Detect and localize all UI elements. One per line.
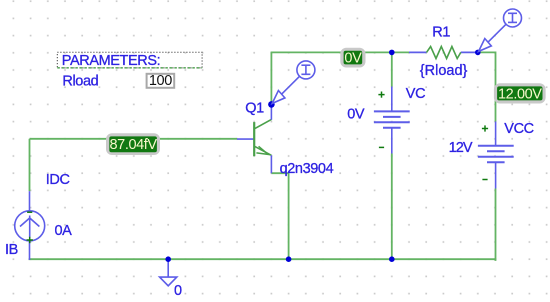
- R1 right pin: [461, 51, 478, 53]
- Q1 base pin: [237, 138, 254, 140]
- VCC plus sign: [482, 125, 488, 131]
- svg-text:100: 100: [149, 73, 172, 89]
- wire: bottom ground rail: [29, 258, 497, 260]
- Q1 collector diagonal: [255, 119, 272, 128]
- wire: VC bottom to ground rail: [391, 154, 393, 260]
- junction dot: VC bottom at ground rail: [389, 256, 395, 262]
- transistor Q1 (q2n3904): [237, 104, 271, 173]
- wire: R1 right pin to right vertical corner: [478, 52, 496, 121]
- wire: base wire from IB column to Q1 base: [30, 138, 238, 140]
- VC plus sign: [378, 92, 384, 98]
- wire: VC top drop from top rail node: [391, 52, 393, 86]
- svg-text:87.04fV: 87.04fV: [110, 137, 158, 153]
- Q1 emitter pin: [270, 155, 272, 173]
- svg-text:0V: 0V: [344, 50, 362, 66]
- current probe on R1 right node: [479, 9, 522, 51]
- junction dot: Q1 collector node: [268, 101, 275, 108]
- IB source minus sign: [27, 211, 32, 213]
- ground symbol 0: [160, 259, 177, 286]
- svg-text:{Rload}: {Rload}: [420, 63, 468, 79]
- svg-text:0: 0: [174, 283, 182, 299]
- IB source plus sign: [27, 237, 33, 243]
- svg-text:12V: 12V: [449, 140, 473, 156]
- svg-text:Q1: Q1: [245, 100, 264, 116]
- wire: VCC bottom to ground rail corner: [495, 189, 496, 261]
- svg-text:IDC: IDC: [46, 172, 70, 188]
- svg-text:Rload: Rload: [62, 74, 98, 90]
- svg-text:q2n3904: q2n3904: [280, 161, 334, 177]
- current source IB (IDC): [15, 191, 45, 260]
- svg-text:IB: IB: [5, 242, 18, 258]
- bias label box 0V (collector node): [340, 48, 365, 68]
- Q1 collector pin: [270, 104, 272, 119]
- svg-text:PARAMETERS:: PARAMETERS:: [62, 53, 160, 69]
- R1 zigzag body: [427, 47, 461, 59]
- voltage source VC (0V battery): [374, 87, 410, 154]
- R1 left pin: [409, 51, 427, 53]
- Q1 emitter diagonal: [255, 146, 272, 155]
- Q1 body bar: [253, 122, 255, 156]
- junction dot: top rail VC node: [389, 50, 395, 56]
- current probe on Q1 collector: [272, 61, 315, 104]
- parameter value box 100: [147, 73, 175, 89]
- svg-text:R1: R1: [432, 24, 450, 40]
- bias label box 87.04fV: [106, 133, 160, 155]
- wire: top rail from collector riser to R1 left pin: [271, 51, 409, 53]
- wire: collector riser from Q1 collector node up to top rail: [270, 52, 272, 104]
- svg-text:12.00V: 12.00V: [498, 86, 542, 102]
- VC minus sign: [379, 146, 384, 148]
- junction dot: emitter at ground rail: [286, 256, 292, 262]
- wire: emitter route from Q1 emitter pin to ground rail: [271, 173, 288, 259]
- resistor R1: [409, 51, 478, 53]
- Q1 emitter arrowhead: [256, 146, 268, 154]
- junction dot: R1 right node: [475, 50, 481, 56]
- PARAMETERS: box: [57, 52, 202, 69]
- svg-text:VC: VC: [406, 86, 425, 102]
- svg-text:0V: 0V: [347, 107, 365, 123]
- svg-text:0A: 0A: [55, 223, 73, 239]
- junction dot: ground node: [165, 256, 171, 262]
- voltage source VCC (12V battery): [478, 122, 514, 189]
- bias label box 12.00V (VCC node): [494, 83, 546, 103]
- wire: left vertical from base wire down to IB source: [29, 139, 31, 191]
- svg-text:VCC: VCC: [504, 121, 533, 137]
- VCC minus sign: [482, 179, 487, 181]
